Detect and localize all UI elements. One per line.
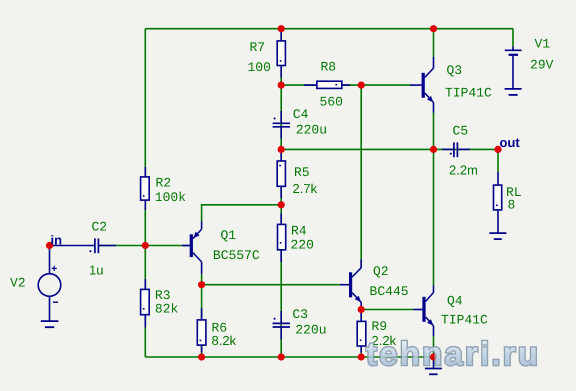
- label R9: [373, 321, 387, 330]
- label RL: [507, 187, 521, 196]
- label R7 value 100: [248, 62, 270, 71]
- junction Q2 emitter / R9 top: [358, 306, 365, 313]
- label RL value 8: [508, 200, 514, 209]
- wire Q4 emitter to rail: [433, 336, 435, 357]
- wire Q1 collector down: [201, 274, 203, 285]
- junction node at C2/R2/R3/Q1 base: [142, 242, 149, 249]
- resistor R4: [278, 214, 286, 263]
- junction Q1 collector: [198, 281, 205, 288]
- ground under V2: [41, 321, 59, 327]
- wire Q3 collector vertical: [433, 29, 435, 57]
- wire left vertical: [144, 29, 146, 357]
- junction Q3 emitter / C5: [430, 146, 437, 153]
- label C2 value 1u: [90, 266, 103, 275]
- label Q3 type TIP41C: [446, 88, 492, 97]
- label R5: [295, 167, 309, 176]
- wire out drop: [497, 152, 499, 172]
- label R2: [157, 178, 171, 187]
- ground under RL: [489, 233, 506, 239]
- junction R5 bottom / Q1 emitter row: [278, 201, 285, 208]
- label Q4: [448, 296, 462, 307]
- label R6 value 8.2k: [212, 336, 236, 346]
- label R8 value 560: [320, 97, 342, 106]
- junction R9 bottom rail: [358, 353, 365, 360]
- label Q3: [447, 65, 461, 76]
- label Q2: [374, 266, 388, 277]
- resistor R8: [304, 81, 350, 88]
- capacitor C4: [273, 111, 290, 139]
- label V2: [10, 278, 25, 287]
- wire x201 vertical R6: [201, 285, 203, 357]
- label R8: [322, 62, 336, 71]
- label Q2 type BC445: [371, 286, 408, 295]
- resistor RL: [494, 172, 502, 233]
- label C2: [92, 222, 106, 231]
- wire Q3 base: [361, 84, 410, 86]
- label R6: [213, 323, 227, 332]
- wire Q3 emitter to Q4 collector: [433, 113, 435, 286]
- junction R8 right: [358, 82, 365, 89]
- junction C3 bottom rail: [278, 353, 285, 360]
- wire row y149: [281, 148, 498, 150]
- battery V1: [505, 47, 522, 89]
- wire Q1 emitter row: [202, 205, 282, 222]
- resistor R3: [141, 279, 150, 328]
- wire R8 row: [281, 84, 361, 86]
- transistor Q2: [340, 260, 361, 310]
- wire bottom rail: [145, 356, 433, 358]
- node label in: [51, 235, 61, 244]
- label R9 value 2.2k: [372, 336, 396, 345]
- wire V1 drop: [512, 29, 514, 47]
- wire middle column: [280, 29, 282, 357]
- wire Q4 base row: [361, 309, 413, 311]
- transistor Q1: [182, 222, 202, 275]
- junction C4 bottom row: [278, 146, 285, 153]
- wire top rail: [145, 28, 513, 30]
- resistor R7: [277, 30, 285, 78]
- capacitor C5: [442, 142, 470, 157]
- wire input row: [99, 245, 190, 247]
- label C3: [293, 309, 307, 318]
- transistor Q3: [410, 57, 434, 113]
- node label out: [500, 139, 520, 148]
- junction Q4 emitter rail: [430, 353, 437, 360]
- wire row y285 to Q2 base: [202, 284, 340, 286]
- ground under V1: [505, 89, 522, 95]
- watermark tehnari.ru: [366, 341, 535, 365]
- junction R7 bottom / R8: [278, 82, 285, 89]
- label Q1: [221, 230, 235, 241]
- resistor R9: [357, 313, 366, 353]
- label C5: [453, 126, 467, 135]
- junction R6 bottom rail: [198, 353, 205, 360]
- label C4: [294, 109, 308, 118]
- label R4: [292, 226, 306, 235]
- label R2 value 100k: [156, 192, 186, 202]
- junction top Q3 collector: [430, 25, 437, 32]
- label C4 value 220u: [297, 125, 326, 134]
- wire R9 column: [360, 310, 362, 358]
- label V1: [535, 39, 550, 48]
- label C3 value 220u: [296, 325, 325, 334]
- label R4 value 220: [291, 240, 313, 249]
- label V1 value 29V: [531, 60, 553, 69]
- voltage source V2: [38, 246, 61, 321]
- capacitor C3: [273, 311, 290, 340]
- label R3: [156, 290, 170, 299]
- label Q1 type BC557C: [214, 250, 259, 259]
- wire x361 vertical: [360, 85, 362, 268]
- label R7: [251, 42, 265, 51]
- label R5 value 2.7k: [293, 184, 317, 193]
- resistor R5: [277, 150, 285, 198]
- resistor R6: [197, 308, 206, 353]
- label Q4 type TIP41C: [442, 315, 488, 324]
- transistor Q4: [413, 286, 434, 337]
- resistor R2: [141, 167, 150, 210]
- label C5 value 2.2m: [450, 165, 477, 174]
- junction top R7: [278, 25, 285, 32]
- junction out node: [494, 146, 501, 153]
- ground under Q4 emitter: [425, 357, 442, 374]
- label R3 value 82k: [156, 303, 178, 313]
- capacitor C2: [51, 238, 117, 253]
